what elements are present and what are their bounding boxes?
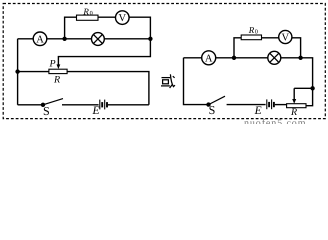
svg-text:R: R <box>248 25 255 35</box>
svg-text:R: R <box>82 7 89 17</box>
svg-text:0: 0 <box>255 28 258 35</box>
svg-text:R: R <box>53 75 60 86</box>
svg-text:E: E <box>91 105 99 117</box>
svg-text:V: V <box>282 33 290 44</box>
svg-text:S: S <box>209 103 216 117</box>
svg-text:A: A <box>36 34 44 45</box>
svg-text:E: E <box>254 105 262 117</box>
svg-text:nuofen5.com: nuofen5.com <box>244 118 306 124</box>
svg-text:P: P <box>49 59 56 70</box>
svg-text:V: V <box>119 13 127 24</box>
svg-text:0: 0 <box>90 10 93 17</box>
svg-text:R: R <box>290 107 297 118</box>
svg-text:A: A <box>205 53 213 64</box>
svg-text:S: S <box>43 104 50 118</box>
